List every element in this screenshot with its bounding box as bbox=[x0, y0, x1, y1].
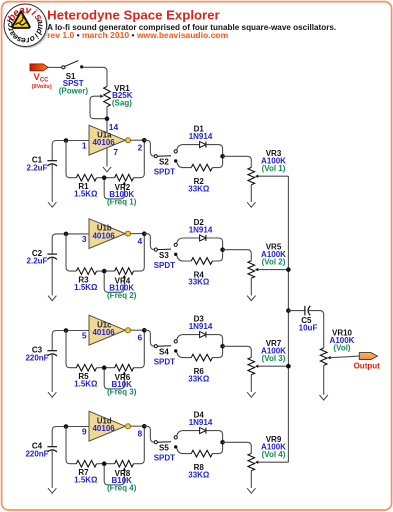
node mix junction bbox=[220, 154, 225, 159]
wire R to junction bbox=[212, 348, 222, 357]
wire diode to junction bbox=[206, 238, 223, 248]
node mix junction bbox=[220, 440, 225, 445]
wire output bbox=[131, 233, 145, 235]
potentiometer VR6 bbox=[104, 364, 133, 389]
svg-text:1.5KΩ: 1.5KΩ bbox=[74, 190, 98, 199]
ground VR10 bbox=[320, 395, 328, 400]
potentiometer VR5 bbox=[248, 261, 288, 296]
wire output to switch bbox=[144, 330, 154, 346]
svg-text:2.2uF: 2.2uF bbox=[27, 163, 48, 172]
svg-text:(Freq 2): (Freq 2) bbox=[107, 291, 137, 300]
wire diode branch bbox=[177, 238, 200, 243]
diode D4 bbox=[200, 428, 206, 434]
wire diode to junction bbox=[206, 431, 223, 441]
wire output to switch bbox=[144, 140, 154, 156]
wire output bbox=[131, 425, 145, 427]
switch S4 bbox=[154, 340, 177, 353]
wire diode branch bbox=[177, 431, 200, 436]
node output junction bbox=[142, 138, 147, 143]
wire resistor branch bbox=[177, 352, 191, 358]
wire mix bus bbox=[287, 176, 289, 462]
svg-text:SPDT: SPDT bbox=[154, 454, 175, 463]
svg-text:33KΩ: 33KΩ bbox=[188, 470, 210, 479]
svg-text:(Vol 2): (Vol 2) bbox=[262, 258, 286, 267]
resistor R7 bbox=[76, 460, 96, 467]
ground bbox=[48, 488, 56, 493]
resistor R2 bbox=[191, 164, 212, 171]
diode D1 bbox=[200, 142, 206, 148]
node feedback junction bbox=[102, 365, 107, 370]
capacitor C1 bbox=[47, 161, 57, 202]
svg-text:220nF: 220nF bbox=[25, 449, 48, 458]
svg-text:SPDT: SPDT bbox=[154, 358, 175, 367]
svg-text:33KΩ: 33KΩ bbox=[188, 184, 210, 193]
svg-text:33KΩ: 33KΩ bbox=[188, 374, 210, 383]
inverter U1b bbox=[89, 219, 131, 249]
wire diode to junction bbox=[206, 145, 223, 155]
ground bbox=[48, 296, 56, 301]
wire VRf to output node bbox=[134, 236, 145, 271]
wire junction to VRv bbox=[223, 250, 252, 261]
resistor R6 bbox=[191, 354, 212, 361]
capacitor C5 bbox=[305, 306, 310, 316]
svg-text:1N914: 1N914 bbox=[189, 226, 213, 235]
wire R to junction bbox=[212, 252, 222, 261]
svg-text:1N914: 1N914 bbox=[189, 132, 213, 141]
capacitor C3 bbox=[47, 351, 57, 392]
node input junction bbox=[64, 424, 69, 429]
ground bbox=[247, 488, 255, 493]
resistor R5 bbox=[76, 364, 96, 371]
svg-text:6: 6 bbox=[138, 332, 143, 342]
svg-text:S2: S2 bbox=[159, 158, 169, 167]
potentiometer VR2 bbox=[104, 174, 133, 199]
node bus C5 bbox=[286, 308, 291, 313]
ground bbox=[247, 392, 255, 397]
svg-text:(Power): (Power) bbox=[59, 87, 89, 96]
wire R to VRf bbox=[97, 463, 115, 465]
wire resistor branch bbox=[177, 162, 191, 168]
wire input to R bbox=[66, 427, 76, 464]
svg-text:Output: Output bbox=[354, 361, 381, 370]
svg-text:(Sag): (Sag) bbox=[112, 98, 132, 107]
wire VRf to output node bbox=[134, 333, 145, 368]
wire VR1 to pin 14 bbox=[106, 107, 108, 133]
svg-text:1.5KΩ: 1.5KΩ bbox=[74, 380, 98, 389]
wire junction to VRv bbox=[223, 442, 252, 453]
svg-text:(Freq 3): (Freq 3) bbox=[107, 388, 137, 397]
wire R to junction bbox=[212, 444, 222, 453]
svg-text:40106: 40106 bbox=[92, 231, 115, 240]
node output junction bbox=[142, 328, 147, 333]
node output junction bbox=[142, 231, 147, 236]
node bus vol2 bbox=[286, 267, 291, 272]
potentiometer VR8 bbox=[104, 460, 133, 485]
svg-text:5: 5 bbox=[82, 331, 87, 341]
node bus vol3 bbox=[286, 364, 291, 369]
wire input node to U1c bbox=[52, 331, 89, 351]
svg-text:1.5KΩ: 1.5KΩ bbox=[74, 476, 98, 485]
capacitor C4 bbox=[47, 447, 57, 488]
node input junction bbox=[64, 138, 69, 143]
switch S3 bbox=[154, 243, 177, 256]
resistor R1 bbox=[76, 174, 96, 181]
wire junction to VRv bbox=[223, 156, 252, 167]
wire resistor branch bbox=[177, 256, 191, 262]
wire input to R bbox=[66, 141, 76, 178]
svg-text:2.2uF: 2.2uF bbox=[27, 257, 48, 266]
svg-text:(Freq 4): (Freq 4) bbox=[107, 484, 137, 493]
switch S5 bbox=[154, 436, 177, 449]
wire VRf to output node bbox=[134, 143, 145, 178]
svg-text:S3: S3 bbox=[159, 251, 169, 260]
svg-text:SPDT: SPDT bbox=[154, 168, 175, 177]
svg-text:(Vol 4): (Vol 4) bbox=[262, 450, 286, 459]
svg-text:S5: S5 bbox=[159, 444, 169, 453]
svg-text:7: 7 bbox=[113, 147, 118, 157]
wire R to junction bbox=[212, 158, 222, 167]
svg-text:2: 2 bbox=[138, 142, 143, 152]
wire R to VRf bbox=[97, 270, 115, 272]
svg-text:1N914: 1N914 bbox=[189, 322, 213, 331]
node feedback junction bbox=[102, 461, 107, 466]
wire output bbox=[131, 329, 145, 331]
inverter U1c bbox=[89, 315, 131, 345]
wire input node to U1b bbox=[52, 234, 89, 254]
potentiometer VR3 bbox=[248, 167, 288, 202]
svg-text:40106: 40106 bbox=[92, 138, 115, 147]
svg-text:9: 9 bbox=[82, 427, 87, 437]
wire input node to U1d bbox=[52, 427, 89, 447]
svg-text:(Vol): (Vol) bbox=[333, 343, 351, 352]
wire bus to C5 bbox=[288, 310, 304, 312]
wire Vcc to S1 bbox=[48, 66, 61, 68]
capacitor C2 bbox=[47, 254, 57, 295]
svg-text:8: 8 bbox=[138, 428, 143, 438]
svg-text:10uF: 10uF bbox=[299, 324, 318, 333]
wire S1 to VR1 bbox=[83, 67, 107, 86]
resistor R3 bbox=[76, 268, 96, 275]
ground bbox=[48, 392, 56, 397]
switch S2 bbox=[154, 150, 177, 163]
resistor R4 bbox=[191, 258, 212, 265]
wire output to switch bbox=[144, 426, 154, 442]
svg-text:(Vol 3): (Vol 3) bbox=[262, 354, 286, 363]
wire output to switch bbox=[144, 234, 154, 250]
wire R to VRf bbox=[97, 367, 115, 369]
svg-text:(Vol 1): (Vol 1) bbox=[262, 164, 286, 173]
ground bbox=[48, 202, 56, 207]
wire output bbox=[131, 139, 145, 141]
diode D3 bbox=[200, 332, 206, 338]
resistor R8 bbox=[191, 450, 212, 457]
wire diode branch bbox=[177, 145, 200, 150]
potentiometer VR9 bbox=[248, 453, 288, 488]
svg-text:S4: S4 bbox=[159, 348, 169, 357]
svg-text:(Freq 1): (Freq 1) bbox=[107, 198, 137, 207]
inverter U1d bbox=[89, 411, 131, 441]
wire input node to U1a bbox=[52, 141, 89, 161]
potentiometer VR1 bbox=[90, 86, 110, 118]
potentiometer VR4 bbox=[104, 268, 133, 293]
node mix junction bbox=[220, 247, 225, 252]
node feedback junction bbox=[102, 175, 107, 180]
wire pin 7 to ground bbox=[106, 147, 108, 166]
svg-text:40106: 40106 bbox=[92, 424, 115, 433]
svg-text:1.5KΩ: 1.5KΩ bbox=[74, 283, 98, 292]
svg-text:SPDT: SPDT bbox=[154, 261, 175, 270]
wire diode to junction bbox=[206, 335, 223, 345]
svg-text:1: 1 bbox=[82, 141, 87, 151]
svg-text:1N914: 1N914 bbox=[189, 418, 213, 427]
wire input to R bbox=[66, 331, 76, 368]
node output junction bbox=[142, 424, 147, 429]
wire resistor branch bbox=[177, 448, 191, 454]
svg-text:3: 3 bbox=[82, 234, 87, 244]
svg-text:rev 1.0 • march 2010 • www.bea: rev 1.0 • march 2010 • www.beavisaudio.c… bbox=[47, 30, 228, 40]
ground bbox=[247, 202, 255, 207]
node input junction bbox=[64, 328, 69, 333]
node input junction bbox=[64, 232, 69, 237]
wire VRf to output node bbox=[134, 429, 145, 464]
node mix junction bbox=[220, 344, 225, 349]
wire C5 to VR10 bbox=[308, 311, 323, 348]
ground pin 7 bbox=[103, 167, 111, 172]
logo beavis audio research bbox=[4, 4, 48, 48]
inverter U1a bbox=[89, 125, 131, 155]
svg-text:33KΩ: 33KΩ bbox=[188, 278, 210, 287]
svg-text:Heterodyne Space Explorer: Heterodyne Space Explorer bbox=[47, 7, 220, 22]
potentiometer VR7 bbox=[248, 357, 288, 392]
switch S1 bbox=[62, 61, 84, 69]
ground bbox=[247, 296, 255, 301]
wire diode branch bbox=[177, 335, 200, 340]
wire input to R bbox=[66, 234, 76, 271]
wire R to VRf bbox=[97, 177, 115, 179]
node feedback junction bbox=[102, 269, 107, 274]
svg-text:(9Volts): (9Volts) bbox=[32, 84, 52, 90]
wire junction to VRv bbox=[223, 346, 252, 357]
node VR1 junction bbox=[105, 116, 110, 121]
svg-text:4: 4 bbox=[138, 236, 143, 246]
diode D2 bbox=[200, 235, 206, 241]
svg-text:40106: 40106 bbox=[92, 328, 115, 337]
svg-text:220nF: 220nF bbox=[25, 353, 48, 362]
potentiometer VR10 bbox=[320, 348, 359, 395]
